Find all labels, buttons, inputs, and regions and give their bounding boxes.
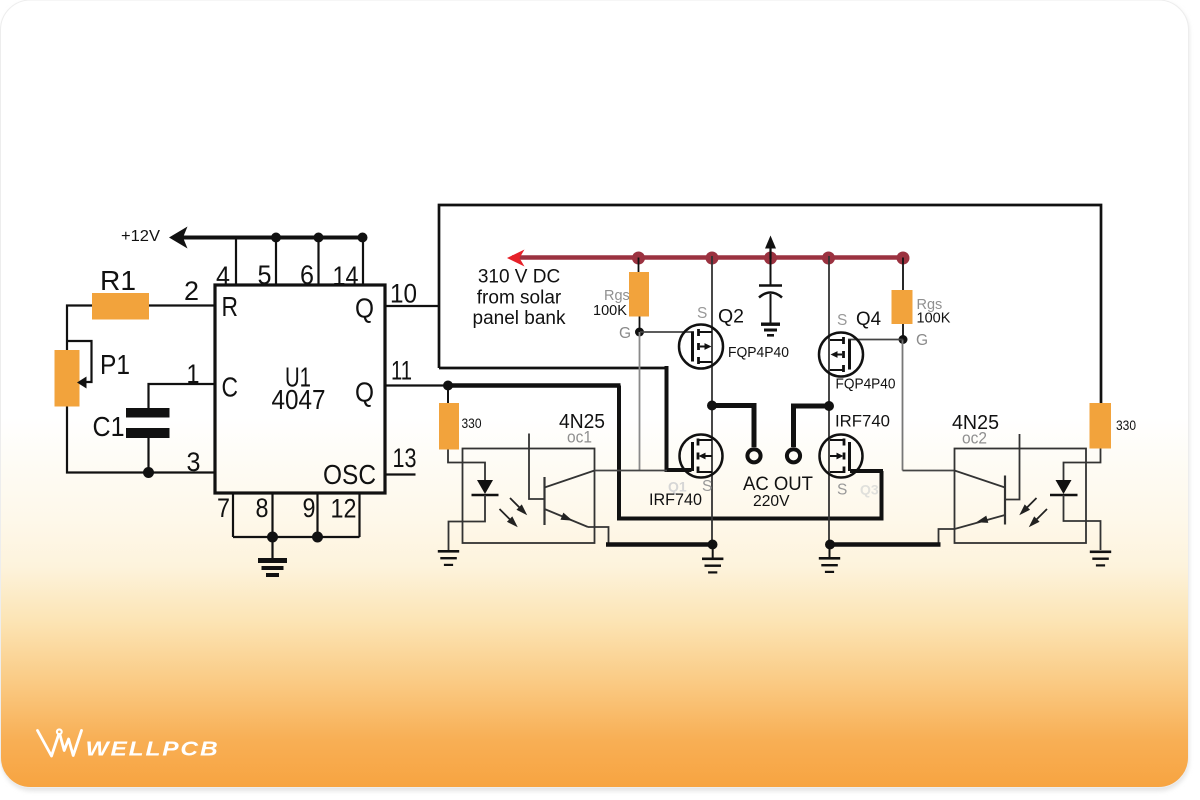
svg-text:FQP4P40: FQP4P40 [836,377,896,393]
svg-text:4: 4 [216,261,230,291]
svg-text:R1: R1 [100,265,136,296]
svg-text:Q: Q [355,377,374,408]
svg-text:10: 10 [390,279,417,309]
svg-text:AC OUT: AC OUT [743,473,813,495]
svg-text:7: 7 [217,493,230,523]
svg-text:IRF740: IRF740 [649,490,702,509]
svg-text:11: 11 [391,356,412,386]
svg-text:6: 6 [300,260,314,290]
svg-text:panel bank: panel bank [473,308,566,329]
svg-text:Q4: Q4 [856,308,881,330]
svg-text:14: 14 [333,261,359,291]
svg-text:oc1: oc1 [567,428,592,447]
svg-text:Rgs: Rgs [604,288,630,304]
svg-text:S: S [697,305,707,322]
svg-text:oc2: oc2 [962,429,987,448]
svg-text:P1: P1 [100,349,130,380]
svg-text:OSC: OSC [323,459,376,490]
svg-text:2: 2 [184,276,199,306]
svg-text:Q2: Q2 [718,306,744,328]
svg-text:WELLPCB: WELLPCB [86,739,220,761]
svg-text:G: G [619,325,631,342]
svg-text:8: 8 [256,493,269,523]
svg-text:Q: Q [355,293,374,324]
svg-text:9: 9 [303,493,316,523]
svg-text:12: 12 [331,494,357,524]
svg-text:330: 330 [462,415,482,431]
svg-text:from solar: from solar [477,288,562,309]
svg-text:S: S [837,482,847,499]
svg-text:IRF740: IRF740 [835,412,890,431]
svg-text:220V: 220V [753,493,790,510]
svg-text:G: G [916,332,928,349]
svg-text:3: 3 [187,447,201,477]
svg-text:1: 1 [187,359,200,389]
svg-text:Q3: Q3 [860,482,879,498]
svg-text:5: 5 [258,260,272,290]
svg-text:330: 330 [1116,417,1136,433]
svg-text:S: S [837,312,847,329]
svg-text:S: S [702,478,712,495]
svg-text:C1: C1 [93,411,125,442]
svg-text:+12V: +12V [121,228,161,245]
svg-text:13: 13 [393,443,417,473]
svg-text:C: C [222,372,239,403]
svg-text:100K: 100K [593,303,627,319]
svg-text:310 V DC: 310 V DC [478,267,560,288]
svg-text:FQP4P40: FQP4P40 [728,345,789,361]
svg-text:4047: 4047 [272,384,326,415]
svg-text:100K: 100K [917,311,951,327]
svg-text:R: R [222,291,239,322]
